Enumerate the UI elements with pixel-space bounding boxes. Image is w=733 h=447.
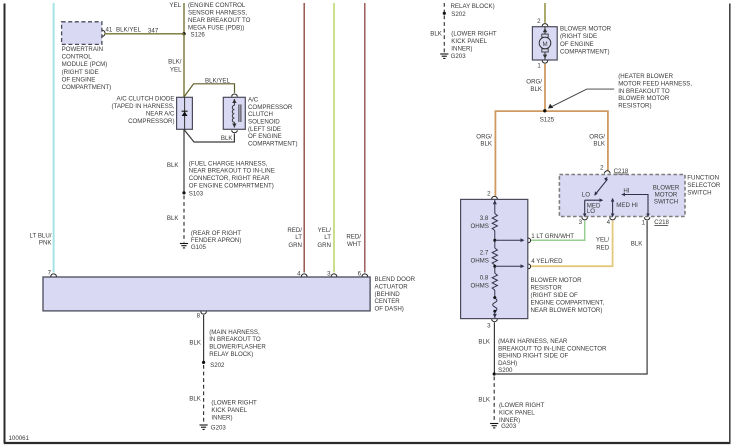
- svg-text:BLK: BLK: [189, 340, 202, 347]
- svg-text:POWERTRAIN: POWERTRAIN: [62, 46, 104, 53]
- wire YEL vertical (top) into S126: [183, 3, 185, 34]
- svg-text:COMPARTMENT): COMPARTMENT): [62, 84, 112, 91]
- A/C clutch diode box: [177, 97, 193, 129]
- diode symbol: [184, 97, 186, 129]
- svg-text:RED/: RED/: [287, 227, 302, 234]
- svg-text:RED: RED: [596, 245, 610, 252]
- svg-text:S126: S126: [191, 32, 206, 39]
- blower motor resistor box: [461, 199, 528, 318]
- svg-text:(REAR OF RIGHT: (REAR OF RIGHT: [191, 230, 241, 237]
- svg-text:SWITCH: SWITCH: [687, 190, 711, 197]
- svg-text:(MAIN HARNESS, NEAR: (MAIN HARNESS, NEAR: [498, 338, 568, 345]
- svg-text:IN BREAKOUT TO: IN BREAKOUT TO: [618, 88, 670, 95]
- svg-text:G203: G203: [501, 423, 517, 430]
- svg-text:ACTUATOR: ACTUATOR: [375, 283, 409, 290]
- svg-text:CONTROL: CONTROL: [62, 54, 93, 61]
- svg-text:HI: HI: [623, 187, 629, 194]
- svg-text:7: 7: [48, 270, 52, 277]
- wire to tap 1: [494, 231, 496, 249]
- svg-text:(LEFT SIDE: (LEFT SIDE: [248, 126, 281, 133]
- svg-text:PNK: PNK: [39, 240, 53, 247]
- svg-text:COMPRESSOR): COMPRESSOR): [128, 118, 174, 125]
- svg-text:BLOWER: BLOWER: [653, 184, 680, 191]
- blower motor box: [532, 27, 557, 60]
- svg-text:BLK: BLK: [478, 339, 491, 346]
- solenoid bottom connector arc: [232, 130, 238, 133]
- switch pin 2 connector: [605, 171, 611, 174]
- wire to thermal limiter: [494, 290, 496, 298]
- svg-text:LT: LT: [295, 234, 302, 241]
- svg-text:3: 3: [579, 219, 583, 226]
- wire LT GRN/WHT switch pin3 to resistor: [531, 221, 585, 240]
- svg-text:SENSOR HARNESS,: SENSOR HARNESS,: [188, 10, 247, 17]
- wire YEL/RED switch pin4 to resistor: [531, 221, 613, 266]
- svg-text:INNER): INNER): [211, 414, 232, 421]
- motor symbol: [544, 27, 546, 60]
- svg-text:BLOWER/FLASHER: BLOWER/FLASHER: [209, 344, 266, 351]
- svg-text:A/C CLUTCH DIODE: A/C CLUTCH DIODE: [116, 95, 174, 102]
- wire BLK/YEL branch to solenoid (diagonal + horizontal): [184, 84, 235, 97]
- svg-text:2: 2: [600, 165, 604, 172]
- bottom arrow: [494, 311, 496, 318]
- node S200: [493, 372, 496, 375]
- svg-text:(LOWER RIGHT: (LOWER RIGHT: [451, 31, 497, 38]
- blend door actuator box: [43, 277, 370, 311]
- resistor element 0.8 OHMS: [492, 273, 497, 290]
- svg-text:LO: LO: [587, 208, 595, 215]
- switch pin 4 connector: [610, 217, 616, 220]
- switch wiper arm: [595, 179, 608, 195]
- switch pin 1 connector: [644, 217, 650, 220]
- svg-text:OHMS: OHMS: [470, 257, 488, 264]
- node S126: [182, 32, 185, 35]
- ground G105: [180, 244, 188, 248]
- border frame left: [4, 4, 6, 444]
- svg-text:OHMS: OHMS: [470, 223, 488, 230]
- svg-text:2.7: 2.7: [480, 249, 489, 256]
- svg-text:BLK: BLK: [593, 141, 606, 148]
- svg-text:COMPARTMENT): COMPARTMENT): [248, 140, 298, 147]
- svg-text:(RIGHT SIDE OF: (RIGHT SIDE OF: [531, 292, 579, 299]
- powertrain control module PCM: [62, 22, 102, 45]
- junction dot tap2: [493, 265, 496, 268]
- pin 3 connector: [331, 274, 337, 277]
- svg-text:OF ENGINE: OF ENGINE: [560, 41, 594, 48]
- blower pin 2 connector: [542, 24, 548, 27]
- svg-text:NEAR BREAKOUT TO IN-LINE: NEAR BREAKOUT TO IN-LINE: [189, 168, 275, 175]
- resistor pin 3 connector: [492, 319, 498, 322]
- svg-text:A/C: A/C: [248, 97, 259, 104]
- svg-text:S202: S202: [451, 11, 466, 18]
- svg-text:BLK: BLK: [631, 241, 644, 248]
- svg-text:MOTOR: MOTOR: [655, 191, 678, 198]
- svg-text:(HEATER BLOWER: (HEATER BLOWER: [618, 73, 673, 80]
- svg-text:SELECTOR: SELECTOR: [687, 182, 721, 189]
- node S202: [202, 361, 205, 364]
- svg-text:ORG/: ORG/: [589, 133, 605, 140]
- svg-text:BLK/: BLK/: [168, 59, 182, 66]
- MED HI contact path to pin 4: [612, 200, 614, 216]
- svg-text:(RIGHT SIDE: (RIGHT SIDE: [560, 33, 597, 40]
- svg-text:RELAY BLOCK): RELAY BLOCK): [451, 3, 495, 10]
- resistor element 2.7 OHMS: [492, 248, 497, 265]
- function selector switch dashed box: [559, 175, 685, 217]
- svg-text:KICK PANEL: KICK PANEL: [451, 38, 487, 45]
- svg-text:KICK PANEL: KICK PANEL: [499, 409, 535, 416]
- svg-text:G203: G203: [211, 425, 227, 432]
- svg-text:1 LT GRN/WHT: 1 LT GRN/WHT: [531, 233, 574, 240]
- svg-text:(TAPED IN HARNESS,: (TAPED IN HARNESS,: [111, 103, 174, 110]
- svg-text:INNER): INNER): [451, 46, 472, 53]
- wire BLK/YEL 347 from PCM to S126: [105, 33, 185, 35]
- wire BLK solenoid bottom to diode wire: [184, 130, 234, 143]
- svg-text:M: M: [542, 41, 547, 48]
- svg-text:OF DASH): OF DASH): [375, 306, 404, 313]
- svg-text:NEAR BREAKOUT TO: NEAR BREAKOUT TO: [188, 17, 251, 24]
- svg-text:GRN: GRN: [288, 242, 302, 249]
- svg-text:CENTER: CENTER: [375, 298, 401, 305]
- svg-text:MEGA FUSE (PDB)): MEGA FUSE (PDB)): [188, 25, 244, 32]
- svg-text:MODULE (PCM): MODULE (PCM): [62, 61, 108, 68]
- svg-text:(RIGHT SIDE: (RIGHT SIDE: [62, 69, 99, 76]
- HI contact path to pin 1: [624, 195, 649, 216]
- svg-text:6: 6: [358, 271, 362, 278]
- wire RED/WHT vertical: [364, 3, 366, 273]
- svg-text:CLUTCH: CLUTCH: [248, 111, 273, 118]
- svg-text:LO: LO: [582, 192, 590, 199]
- svg-text:FENDER APRON): FENDER APRON): [191, 237, 242, 244]
- solenoid top connector arc: [232, 94, 238, 97]
- svg-text:RED/: RED/: [346, 234, 361, 241]
- svg-text:2: 2: [487, 190, 491, 197]
- pin 8 connector bottom: [201, 312, 207, 315]
- resistor internal: top arrow: [494, 199, 496, 213]
- svg-text:IN BREAKOUT TO: IN BREAKOUT TO: [209, 336, 261, 343]
- A/C compressor clutch solenoid box: [223, 97, 245, 129]
- svg-text:41: 41: [106, 27, 113, 34]
- svg-text:OF ENGINE: OF ENGINE: [248, 133, 282, 140]
- node S103: [182, 191, 185, 194]
- svg-text:DASH): DASH): [498, 360, 517, 367]
- svg-text:OHMS: OHMS: [470, 282, 488, 289]
- node S125 dot: [543, 109, 546, 112]
- svg-text:BLK/YEL: BLK/YEL: [205, 78, 231, 85]
- ground G203 (top): [440, 54, 448, 58]
- svg-text:(MAIN HARNESS,: (MAIN HARNESS,: [209, 329, 260, 336]
- svg-text:4: 4: [607, 219, 611, 226]
- border frame right: [729, 4, 731, 444]
- svg-text:8: 8: [197, 313, 201, 320]
- wire YEL into blower pin 2: [544, 3, 546, 23]
- svg-text:S202: S202: [210, 362, 225, 369]
- solenoid coil symbol: [233, 99, 235, 105]
- svg-text:ORG/: ORG/: [526, 78, 542, 85]
- svg-text:0.8: 0.8: [480, 275, 489, 282]
- wire BLK diode to S103: [183, 129, 185, 193]
- pin 6 connector: [362, 274, 368, 277]
- svg-text:YEL/: YEL/: [596, 236, 610, 243]
- wire LT BLU/PNK vertical to blend door pin 7: [53, 3, 55, 273]
- svg-text:G105: G105: [191, 244, 207, 251]
- svg-text:S125: S125: [540, 117, 555, 124]
- node S202 (top): [443, 12, 446, 15]
- svg-text:BLOWER MOTOR: BLOWER MOTOR: [618, 95, 670, 102]
- svg-text:SOLENOID: SOLENOID: [248, 119, 280, 126]
- wire BLK switch pin1 to S200: [496, 221, 647, 374]
- svg-text:S200: S200: [498, 367, 513, 374]
- PCM pin 41 connector arc: [102, 30, 105, 36]
- border frame bottom: [4, 442, 731, 444]
- svg-text:GRN: GRN: [317, 242, 331, 249]
- tap arrow 1: [495, 239, 522, 241]
- svg-text:BLK/YEL: BLK/YEL: [116, 27, 142, 34]
- svg-text:NEAR BLOWER MOTOR): NEAR BLOWER MOTOR): [531, 307, 603, 314]
- svg-text:BLK: BLK: [530, 86, 543, 93]
- svg-text:NEAR A/C: NEAR A/C: [146, 111, 175, 118]
- svg-text:LT: LT: [324, 234, 331, 241]
- svg-text:100061: 100061: [9, 435, 30, 442]
- svg-text:COMPRESSOR: COMPRESSOR: [248, 104, 293, 111]
- svg-text:ENGINE COMPARTMENT,: ENGINE COMPARTMENT,: [531, 300, 605, 307]
- svg-text:S103: S103: [189, 190, 204, 197]
- wire BLK dashed S202 to G203: [203, 365, 205, 424]
- svg-text:3: 3: [327, 271, 331, 278]
- wire BLK dashed S202 to G203 top: [443, 16, 445, 54]
- wire BLK dashed S200 to G203: [493, 377, 495, 423]
- wire ORG/BLK blower pin1 to S125: [544, 64, 546, 111]
- svg-text:YEL: YEL: [169, 2, 181, 9]
- svg-text:KICK PANEL: KICK PANEL: [211, 407, 247, 414]
- MED LO contact path to pin 3: [585, 200, 601, 215]
- svg-text:BLK: BLK: [480, 141, 493, 148]
- junction dot tap1: [493, 239, 496, 242]
- svg-text:BEHIND RIGHT SIDE OF: BEHIND RIGHT SIDE OF: [498, 353, 568, 360]
- callout arrow heater blower motor feed harness: [551, 89, 615, 107]
- tap exit arcs on right edge: [528, 238, 531, 243]
- svg-text:MED HI: MED HI: [616, 202, 638, 209]
- svg-text:347: 347: [148, 28, 159, 35]
- svg-text:(BEHIND: (BEHIND: [375, 291, 401, 298]
- svg-text:YEL/: YEL/: [318, 227, 332, 234]
- svg-text:BLK: BLK: [167, 162, 180, 169]
- svg-text:G203: G203: [451, 53, 467, 60]
- svg-text:OF ENGINE COMPARTMENT): OF ENGINE COMPARTMENT): [189, 183, 274, 190]
- svg-text:(LOWER RIGHT: (LOWER RIGHT: [211, 399, 257, 406]
- svg-text:SWITCH: SWITCH: [654, 199, 678, 206]
- svg-text:BLEND DOOR: BLEND DOOR: [375, 276, 416, 283]
- svg-text:FUNCTION: FUNCTION: [687, 175, 719, 182]
- solenoid core lines: [238, 104, 240, 122]
- wire BLK dashed S103 to G105: [183, 196, 185, 243]
- svg-text:MOTOR FEED HARNESS,: MOTOR FEED HARNESS,: [618, 80, 692, 87]
- wire RED/LT GRN vertical: [303, 3, 305, 273]
- wire BLK dashed from top to S202: [443, 3, 445, 13]
- svg-text:(FUEL CHARGE HARNESS,: (FUEL CHARGE HARNESS,: [189, 160, 268, 167]
- svg-text:2: 2: [537, 18, 541, 25]
- svg-text:COMPARTMENT): COMPARTMENT): [560, 49, 610, 56]
- resistor element 3.8 OHMS: [492, 214, 497, 231]
- svg-text:BLOWER MOTOR: BLOWER MOTOR: [560, 26, 612, 33]
- svg-text:BREAKOUT TO IN-LINE CONNECTOR: BREAKOUT TO IN-LINE CONNECTOR: [498, 345, 607, 352]
- svg-text:3: 3: [487, 322, 491, 329]
- pin 4 connector: [301, 274, 307, 277]
- svg-text:4: 4: [297, 271, 301, 278]
- svg-text:BLOWER MOTOR: BLOWER MOTOR: [531, 277, 583, 284]
- svg-text:OF ENGINE: OF ENGINE: [62, 76, 96, 83]
- wire BLK/YEL vertical S126 to diode: [183, 34, 185, 98]
- svg-text:RESISTOR): RESISTOR): [618, 103, 651, 110]
- svg-text:CONNECTOR, RIGHT REAR: CONNECTOR, RIGHT REAR: [189, 175, 270, 182]
- wire YEL/LT GRN vertical: [333, 3, 335, 273]
- switch pin 3 connector: [582, 217, 588, 220]
- wire BLK pin 8 to S202: [203, 315, 205, 362]
- svg-text:1: 1: [642, 219, 646, 226]
- svg-text:BLK: BLK: [167, 215, 180, 222]
- svg-text:WHT: WHT: [347, 241, 361, 248]
- svg-text:RESISTOR: RESISTOR: [531, 285, 563, 292]
- svg-text:YEL: YEL: [170, 67, 182, 74]
- pin 7 connector: [51, 274, 57, 277]
- wire to tap 2: [494, 265, 496, 273]
- ground G203 (right): [490, 424, 498, 428]
- tap arrow 2: [495, 265, 522, 267]
- thermal limiter squiggle: [493, 298, 497, 311]
- svg-text:4 YEL/RED: 4 YEL/RED: [531, 258, 563, 265]
- svg-text:LT BLU/: LT BLU/: [30, 233, 52, 240]
- svg-text:BLK: BLK: [478, 397, 491, 404]
- svg-text:(LOWER RIGHT: (LOWER RIGHT: [499, 402, 545, 409]
- blower pin 1 connector: [542, 61, 548, 64]
- svg-text:BLK: BLK: [189, 395, 202, 402]
- svg-text:ORG/: ORG/: [476, 133, 492, 140]
- svg-text:3.8: 3.8: [480, 215, 489, 222]
- svg-text:RELAY BLOCK): RELAY BLOCK): [209, 351, 253, 358]
- svg-text:BLK: BLK: [430, 31, 443, 38]
- wire BLK resistor pin3 to S200: [493, 322, 495, 374]
- svg-text:(ENGINE CONTROL: (ENGINE CONTROL: [188, 2, 246, 9]
- svg-text:1: 1: [537, 62, 541, 69]
- svg-text:BLK: BLK: [221, 135, 234, 142]
- ground G203 (left): [200, 425, 208, 429]
- wire ORG/BLK horizontal split at S125: [495, 111, 608, 196]
- resistor pin 2 connector: [492, 196, 498, 199]
